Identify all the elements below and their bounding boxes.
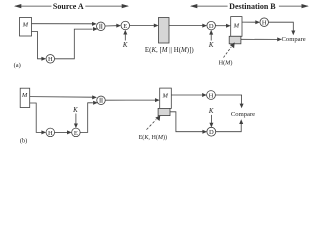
hash H circle source (b) [46,128,55,137]
svg-text:E: E [123,23,127,30]
wire M down to H (b) [30,103,42,132]
wire hash block to compare (a) [241,38,278,40]
encrypt E circle (b) [72,128,81,137]
decrypt D circle (b) [207,127,216,136]
svg-text:Compare: Compare [231,111,255,118]
svg-text:(b): (b) [20,138,27,145]
svg-text:K: K [72,107,78,114]
callout dashed arrow E(K, H(M)) (b) [147,120,157,130]
wire received M to H (b) [171,94,202,96]
wire D up to compare (b) [216,123,242,132]
svg-text:Compare: Compare [282,36,306,43]
block M source (b) [20,88,30,107]
svg-text:D: D [209,23,214,30]
wire D to received block (a) [215,25,226,27]
svg-text:M: M [22,21,29,28]
svg-text:M: M [21,92,28,99]
svg-text:K: K [208,42,214,49]
svg-text:H: H [48,56,53,63]
svg-text:K: K [122,42,128,49]
wire M to concat (b) [30,96,93,99]
received message block M (b) [160,88,172,108]
hash H circle destination (b) [207,91,216,100]
wire M down to H (a) [32,32,42,59]
received hash block shaded (a) [229,36,241,44]
key K arrow into D (a) [210,33,212,41]
wire H up to concat (a) [55,29,93,59]
wire concat to received block (b) [105,99,155,101]
svg-text:Source A: Source A [53,2,84,11]
wire hash block down to D (b) [170,112,203,132]
span arrow Destination B [190,4,309,8]
key K arrow into E (b) [75,114,77,126]
svg-text:E: E [74,130,78,137]
svg-text:H: H [209,93,214,100]
svg-text:E(K, H(M)): E(K, H(M)) [139,134,167,141]
received message block M (a) [231,17,242,37]
wire concat to E (a) [105,25,116,27]
svg-text:H(M): H(M) [219,60,233,67]
wire H down to compare (a) [268,22,293,31]
wire block to D (a) [169,25,203,27]
span arrow Source A [14,4,129,8]
svg-text:(a): (a) [14,62,21,69]
decrypt D circle (a) [207,21,216,30]
shaded transmitted block (a) [159,18,170,44]
block M source (a) [20,18,32,37]
svg-text:Destination B: Destination B [229,2,276,11]
concat circle (a) [97,22,106,31]
wire H to E (b) [55,131,68,133]
key K arrow into D (b) [210,115,212,124]
svg-text:D: D [209,129,214,136]
wire received M to H (a) [242,21,256,23]
wire M to concat (a) [32,23,93,25]
wire E up to concat (b) [80,103,93,133]
callout dashed arrow H(M) (a) [224,47,232,58]
concat circle (b) [97,96,106,105]
encrypt E circle (a) [121,21,130,30]
hash H circle destination (a) [260,18,269,27]
svg-text:H: H [262,20,267,27]
svg-text:M: M [161,92,168,99]
svg-text:H: H [48,130,53,137]
svg-text:E(K, [M || H(M)]): E(K, [M || H(M)]) [145,47,194,54]
received hash block shaded (b) [158,108,170,115]
wire E to message block (a) [130,25,154,27]
wire H down to compare (b) [215,95,241,105]
svg-text:M: M [233,22,240,29]
hash H circle source (a) [46,55,55,64]
key K arrow into E (a) [124,33,126,41]
svg-text:K: K [208,108,214,115]
